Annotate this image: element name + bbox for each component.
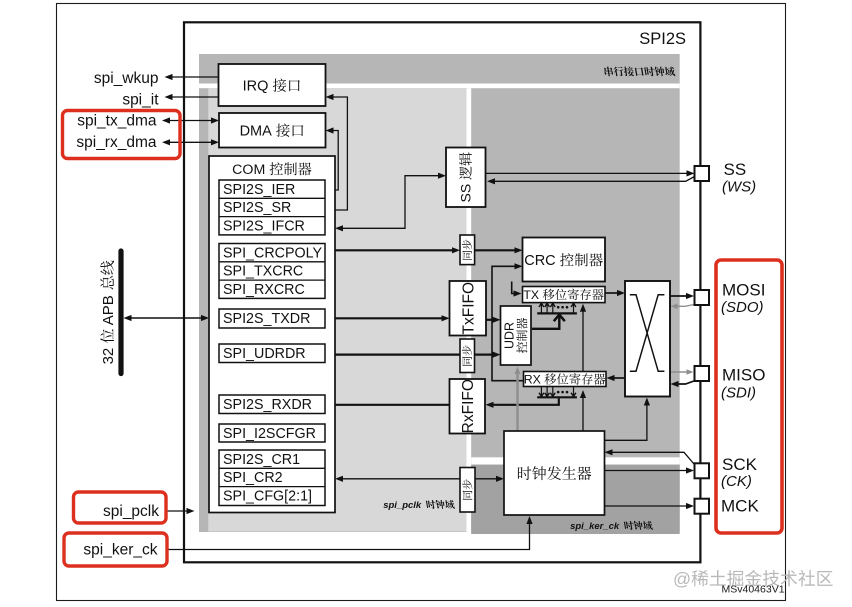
- svg-text:SPI_I2SCFGR: SPI_I2SCFGR: [223, 426, 316, 442]
- svg-text:(WS): (WS): [722, 179, 756, 196]
- svg-text:MOSI: MOSI: [722, 281, 765, 300]
- svg-text:SPI_TXCRC: SPI_TXCRC: [223, 264, 303, 280]
- svg-text:DMA: DMA: [240, 124, 275, 140]
- svg-text:spi_ker_ck: spi_ker_ck: [570, 521, 624, 532]
- svg-text:RxFIFO: RxFIFO: [460, 379, 477, 433]
- svg-text:MSv40463V1: MSv40463V1: [722, 584, 785, 596]
- svg-text:SPI2S_SR: SPI2S_SR: [223, 200, 291, 216]
- svg-text:SPI2S: SPI2S: [639, 30, 686, 48]
- svg-text:MISO: MISO: [722, 366, 765, 385]
- svg-text:MCK: MCK: [721, 497, 759, 516]
- svg-text:COM: COM: [232, 162, 269, 178]
- svg-text:SPI2S_RXDR: SPI2S_RXDR: [223, 397, 312, 413]
- svg-text:spi_rx_dma: spi_rx_dma: [76, 134, 156, 151]
- svg-text:TX: TX: [523, 288, 542, 302]
- svg-text:UDR: UDR: [502, 322, 516, 349]
- svg-text:RX: RX: [524, 373, 545, 387]
- svg-text:SPI2S_CR1: SPI2S_CR1: [223, 452, 300, 468]
- svg-text:SPI2S_IER: SPI2S_IER: [223, 182, 295, 198]
- svg-text:SPI_CRCPOLY: SPI_CRCPOLY: [223, 245, 323, 261]
- svg-text:spi_ker_ck: spi_ker_ck: [83, 542, 157, 559]
- svg-text:SPI_UDRDR: SPI_UDRDR: [223, 346, 306, 362]
- svg-text:spi_pclk: spi_pclk: [383, 500, 426, 511]
- svg-text:SPI2S_IFCR: SPI2S_IFCR: [223, 218, 305, 234]
- svg-text:SPI_RXCRC: SPI_RXCRC: [223, 282, 305, 298]
- svg-text:(CK): (CK): [721, 473, 752, 490]
- svg-text:spi_it: spi_it: [122, 92, 159, 109]
- svg-text:(SDI): (SDI): [721, 385, 756, 402]
- svg-text:@: @: [673, 569, 691, 589]
- svg-text:TxFIFO: TxFIFO: [460, 282, 477, 335]
- svg-text:CRC: CRC: [524, 253, 559, 269]
- svg-text:spi_pclk: spi_pclk: [103, 503, 159, 520]
- svg-text:APB: APB: [100, 291, 117, 329]
- svg-text:SS: SS: [458, 180, 474, 203]
- svg-text:spi_wkup: spi_wkup: [94, 70, 159, 87]
- svg-text:SS: SS: [724, 160, 747, 179]
- svg-text:32: 32: [100, 344, 117, 365]
- svg-text:SPI_CR2: SPI_CR2: [223, 470, 283, 486]
- svg-text:IRQ: IRQ: [243, 79, 273, 95]
- svg-text:SPI_CFG[2:1]: SPI_CFG[2:1]: [223, 488, 312, 504]
- svg-text:SPI2S_TXDR: SPI2S_TXDR: [223, 311, 310, 327]
- svg-text:SCK: SCK: [722, 455, 758, 474]
- svg-text:spi_tx_dma: spi_tx_dma: [77, 113, 157, 130]
- svg-text:(SDO): (SDO): [721, 299, 764, 316]
